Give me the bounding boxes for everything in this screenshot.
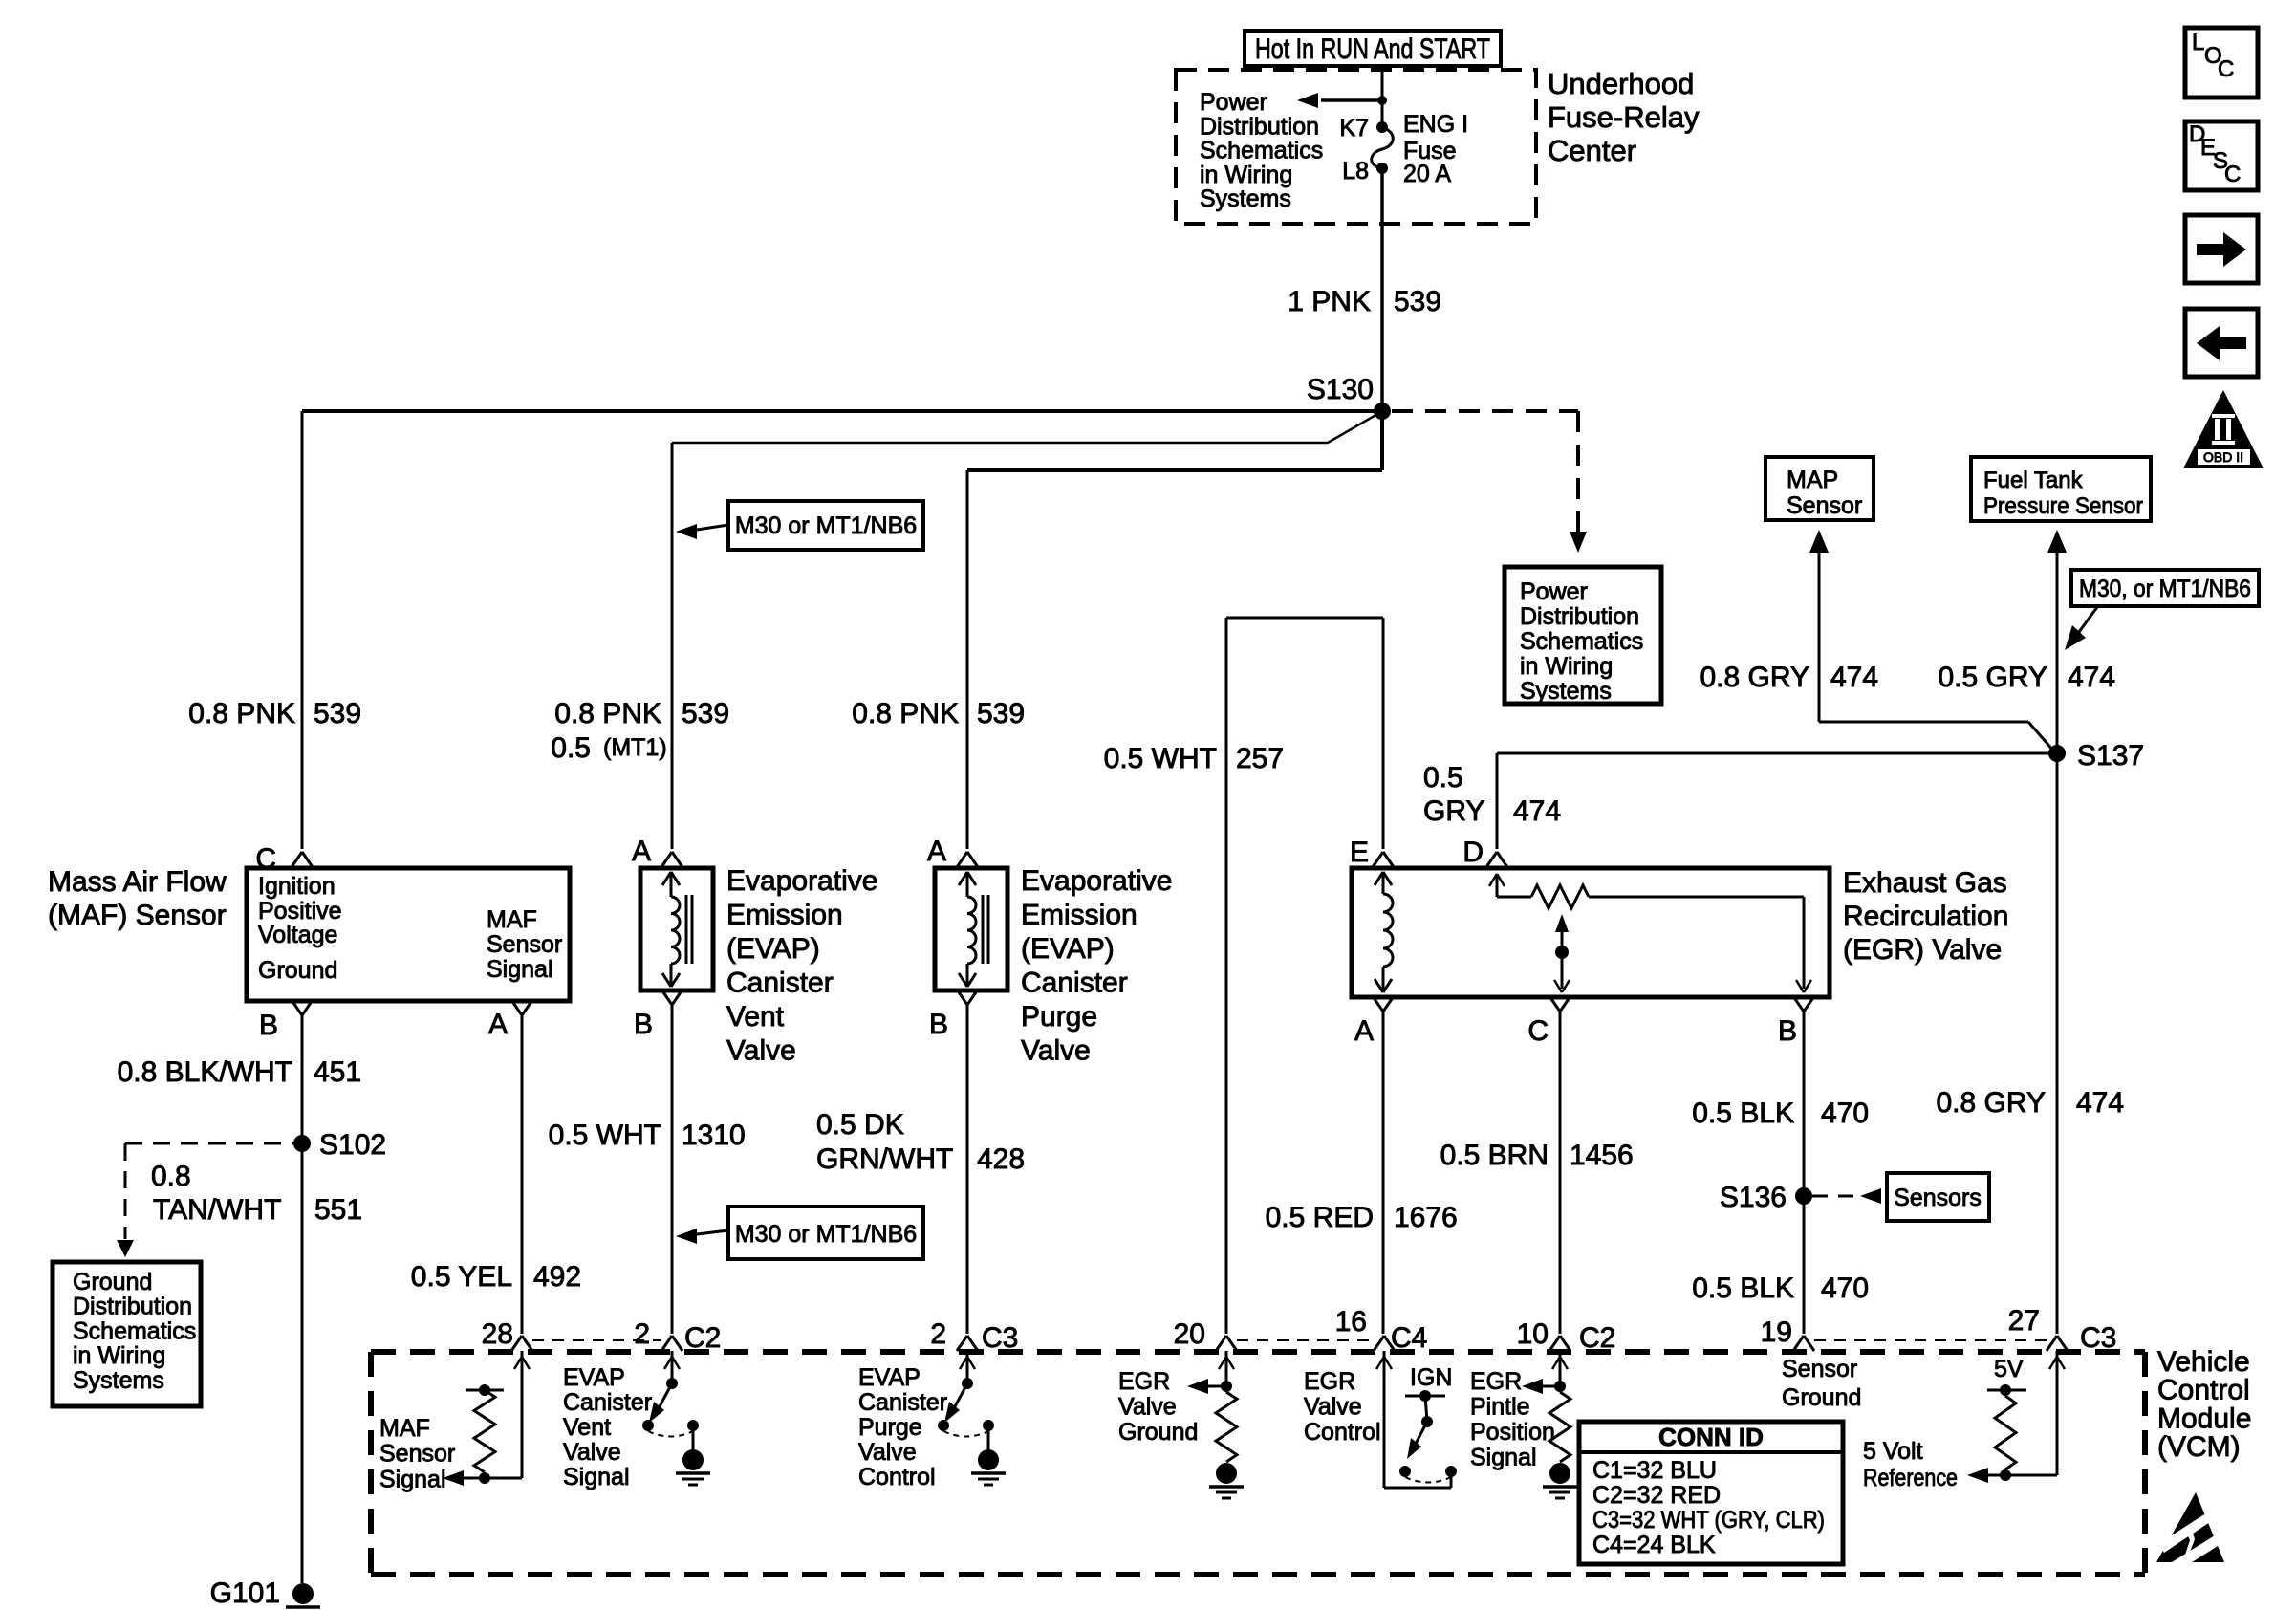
svg-text:10: 10 [1517,1318,1549,1350]
svg-text:in Wiring: in Wiring [1200,162,1292,188]
svg-text:MAF: MAF [487,906,537,933]
svg-text:GRN/WHT: GRN/WHT [816,1143,953,1175]
svg-text:Positive: Positive [258,898,342,925]
svg-text:Sensor: Sensor [1787,492,1862,519]
svg-text:539: 539 [682,698,729,729]
svg-text:5 Volt: 5 Volt [1863,1438,1923,1465]
svg-text:27: 27 [2008,1305,2040,1337]
svg-text:B: B [929,1009,948,1040]
svg-text:0.8: 0.8 [151,1161,191,1192]
svg-text:474: 474 [2068,662,2115,693]
svg-text:Mass Air Flow: Mass Air Flow [48,866,227,898]
svg-text:Underhood: Underhood [1548,67,1694,100]
svg-text:Control: Control [858,1464,936,1490]
svg-text:Vent: Vent [726,1001,785,1033]
svg-text:S137: S137 [2077,740,2144,772]
svg-text:28: 28 [482,1318,513,1350]
svg-text:(MT1): (MT1) [603,734,667,761]
svg-text:B: B [1778,1015,1797,1047]
svg-text:0.8 BLK/WHT: 0.8 BLK/WHT [118,1056,292,1088]
svg-text:MAP: MAP [1787,467,1838,493]
svg-text:0.8 GRY: 0.8 GRY [1700,662,1809,693]
svg-text:Signal: Signal [487,956,553,983]
svg-text:A: A [632,836,651,867]
svg-text:1 PNK: 1 PNK [1288,286,1371,317]
svg-text:Fuse-Relay: Fuse-Relay [1548,100,1700,134]
svg-text:0.8 PNK: 0.8 PNK [554,698,661,729]
svg-text:Valve: Valve [726,1035,796,1067]
svg-text:C: C [255,843,276,875]
svg-text:Ignition: Ignition [258,873,336,900]
svg-text:Systems: Systems [1200,185,1291,212]
svg-text:Distribution: Distribution [1520,603,1639,630]
svg-text:0.5 BLK: 0.5 BLK [1692,1098,1794,1129]
svg-text:Pintle: Pintle [1470,1394,1530,1421]
svg-text:in Wiring: in Wiring [1520,653,1613,680]
svg-text:Valve: Valve [563,1439,621,1466]
svg-text:257: 257 [1236,743,1284,774]
svg-text:Signal: Signal [563,1464,630,1490]
svg-text:Evaporative: Evaporative [726,865,877,897]
svg-text:Distribution: Distribution [1200,113,1319,140]
svg-text:Center: Center [1548,134,1636,167]
svg-text:Systems: Systems [1520,678,1612,705]
svg-text:OBD II: OBD II [2203,449,2243,465]
svg-text:Recirculation: Recirculation [1843,901,2008,932]
svg-text:0.5 WHT: 0.5 WHT [549,1120,661,1151]
svg-text:0.8 PNK: 0.8 PNK [188,698,295,729]
svg-text:2: 2 [634,1318,650,1350]
svg-text:(VCM): (VCM) [2157,1431,2241,1463]
svg-text:C4: C4 [1391,1322,1427,1354]
svg-text:2: 2 [930,1318,946,1350]
svg-text:E: E [1350,837,1369,868]
svg-text:C3: C3 [2080,1322,2116,1354]
svg-text:Canister: Canister [1021,968,1128,999]
svg-text:C: C [2218,56,2234,82]
svg-text:Ground: Ground [1782,1384,1861,1411]
svg-text:16: 16 [1335,1306,1367,1338]
svg-text:C1=32 BLU: C1=32 BLU [1592,1457,1717,1484]
svg-text:S102: S102 [319,1129,386,1161]
svg-text:G101: G101 [210,1577,280,1609]
svg-text:470: 470 [1821,1273,1869,1304]
svg-text:19: 19 [1761,1316,1792,1348]
svg-text:(EGR) Valve: (EGR) Valve [1843,934,2002,966]
svg-text:0.5: 0.5 [1423,762,1463,794]
svg-text:0.5 WHT: 0.5 WHT [1104,743,1217,774]
svg-text:in Wiring: in Wiring [73,1342,165,1369]
svg-text:Canister: Canister [858,1389,947,1416]
svg-text:D: D [1462,837,1484,868]
svg-text:451: 451 [314,1056,361,1088]
svg-text:Position: Position [1470,1419,1555,1446]
svg-text:20: 20 [1174,1318,1205,1350]
svg-text:S136: S136 [1720,1182,1787,1213]
svg-text:Control: Control [1304,1419,1381,1446]
svg-text:474: 474 [1830,662,1878,693]
svg-text:M30 or MT1/NB6: M30 or MT1/NB6 [735,512,917,539]
svg-text:B: B [634,1009,653,1040]
svg-text:EGR: EGR [1118,1368,1170,1395]
svg-text:Exhaust Gas: Exhaust Gas [1843,867,2007,899]
svg-text:M30 or MT1/NB6: M30 or MT1/NB6 [735,1221,917,1248]
svg-text:Vehicle: Vehicle [2157,1346,2250,1378]
svg-text:1676: 1676 [1394,1202,1458,1233]
svg-text:A: A [488,1009,508,1040]
svg-text:Purge: Purge [1021,1001,1097,1033]
svg-text:EVAP: EVAP [858,1364,921,1391]
svg-text:GRY: GRY [1423,795,1484,827]
svg-text:474: 474 [2076,1087,2124,1119]
svg-text:Signal: Signal [379,1466,446,1492]
svg-text:EGR: EGR [1470,1368,1522,1395]
svg-text:K7: K7 [1339,115,1369,141]
svg-text:5V: 5V [1994,1356,2024,1382]
svg-text:Purge: Purge [858,1414,922,1441]
svg-text:Canister: Canister [726,968,834,999]
svg-text:TAN/WHT: TAN/WHT [153,1194,281,1226]
svg-text:551: 551 [314,1194,362,1226]
svg-text:Vent: Vent [563,1414,611,1441]
svg-text:(EVAP): (EVAP) [1021,933,1115,965]
svg-text:0.5 YEL: 0.5 YEL [411,1261,512,1293]
svg-text:0.5 RED: 0.5 RED [1266,1202,1374,1233]
svg-text:Schematics: Schematics [1200,138,1323,164]
svg-text:Power: Power [1200,89,1267,116]
svg-text:Hot In RUN And START: Hot In RUN And START [1255,33,1490,65]
svg-text:492: 492 [533,1261,581,1293]
svg-text:(MAF) Sensor: (MAF) Sensor [48,900,227,931]
svg-text:Valve: Valve [1304,1394,1362,1421]
svg-text:C: C [1527,1015,1549,1047]
svg-text:Ground: Ground [258,957,337,984]
svg-text:Distribution: Distribution [73,1294,192,1320]
svg-text:IGN: IGN [1410,1364,1452,1391]
svg-text:Voltage: Voltage [258,922,337,948]
svg-text:Emission: Emission [726,900,843,931]
svg-text:Valve: Valve [1118,1394,1177,1421]
svg-text:Control: Control [2157,1375,2250,1406]
svg-text:Reference: Reference [1863,1465,1958,1491]
svg-text:C3=32 WHT (GRY, CLR): C3=32 WHT (GRY, CLR) [1592,1507,1825,1534]
svg-text:EGR: EGR [1304,1368,1355,1395]
svg-text:0.8 GRY: 0.8 GRY [1936,1087,2046,1119]
svg-text:428: 428 [977,1143,1025,1175]
svg-text:ENG I: ENG I [1403,111,1468,138]
svg-text:Signal: Signal [1470,1445,1537,1471]
svg-text:539: 539 [1394,286,1441,317]
svg-text:Power: Power [1520,578,1588,605]
svg-text:20 A: 20 A [1403,161,1451,187]
svg-text:Emission: Emission [1021,900,1137,931]
svg-text:Valve: Valve [858,1439,917,1466]
svg-text:539: 539 [314,698,361,729]
svg-text:Sensor: Sensor [487,931,562,958]
svg-text:C3: C3 [982,1322,1018,1354]
svg-text:C4=24 BLK: C4=24 BLK [1592,1532,1716,1558]
svg-text:Ground: Ground [1118,1419,1198,1446]
svg-text:A: A [927,836,946,867]
svg-text:0.5 BRN: 0.5 BRN [1440,1140,1549,1171]
svg-text:0.5: 0.5 [551,732,591,764]
svg-text:S130: S130 [1307,374,1374,405]
svg-text:0.5 DK: 0.5 DK [816,1109,904,1141]
svg-text:M30, or MT1/NB6: M30, or MT1/NB6 [2079,576,2251,602]
svg-text:1310: 1310 [682,1120,746,1151]
svg-text:MAF: MAF [379,1415,430,1442]
svg-text:470: 470 [1821,1098,1869,1129]
svg-text:C2=32 RED: C2=32 RED [1592,1482,1721,1509]
svg-text:Fuel Tank: Fuel Tank [1983,468,2084,493]
svg-text:0.5 GRY: 0.5 GRY [1938,662,2047,693]
svg-text:L8: L8 [1342,158,1369,185]
svg-text:0.8 PNK: 0.8 PNK [852,698,959,729]
svg-text:Sensor: Sensor [379,1441,455,1468]
svg-text:539: 539 [977,698,1025,729]
svg-text:L: L [2192,30,2204,55]
svg-text:Sensor: Sensor [1782,1356,1857,1382]
svg-text:474: 474 [1513,795,1561,827]
svg-text:C2: C2 [1579,1322,1615,1354]
svg-text:Canister: Canister [563,1389,652,1416]
svg-text:Valve: Valve [1021,1035,1091,1067]
svg-text:Module: Module [2157,1403,2251,1434]
svg-text:B: B [259,1010,278,1041]
svg-text:A: A [1354,1015,1374,1047]
svg-text:Schematics: Schematics [1520,628,1643,655]
svg-text:1456: 1456 [1570,1140,1634,1171]
svg-text:Evaporative: Evaporative [1021,865,1172,897]
svg-text:0.5 BLK: 0.5 BLK [1692,1273,1794,1304]
svg-text:(EVAP): (EVAP) [726,933,820,965]
svg-text:Sensors: Sensors [1894,1185,1982,1211]
svg-text:Systems: Systems [73,1367,164,1394]
svg-text:Schematics: Schematics [73,1317,196,1344]
svg-text:Pressure Sensor: Pressure Sensor [1983,493,2143,519]
svg-text:Ground: Ground [73,1269,152,1295]
svg-text:C2: C2 [684,1322,721,1354]
svg-text:C: C [2224,162,2241,187]
svg-text:CONN ID: CONN ID [1658,1423,1764,1451]
svg-text:EVAP: EVAP [563,1364,625,1391]
